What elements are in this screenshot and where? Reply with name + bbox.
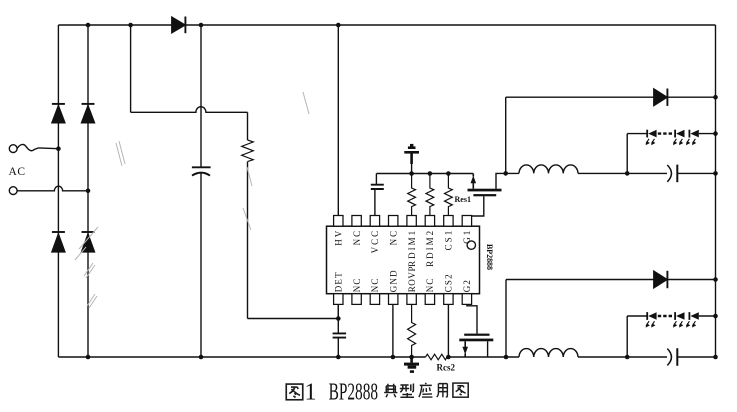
wire top VIN+ bus: [58, 24, 715, 26]
wire CH2 freewheel line: [506, 279, 716, 281]
wire CH2 LED riser: [626, 316, 628, 357]
wire DET horizontal: [248, 318, 339, 320]
LED string CH2: [646, 312, 699, 328]
wire CH2 drain riser: [505, 280, 507, 358]
svg-text:CS1: CS1: [444, 229, 454, 251]
wire CH2 LED row right: [699, 315, 716, 317]
faint scan marks: [75, 92, 309, 308]
wire AC live to bridge: [39, 147, 59, 150]
transistor Q1 gate bar: [473, 194, 496, 196]
wire C4 to rail: [677, 172, 715, 174]
resistor Res1 (CS1): [445, 174, 453, 216]
LED string CH1: [646, 130, 699, 146]
capacitor C5 (CH2 output): [667, 349, 671, 366]
svg-text:DET: DET: [334, 271, 344, 292]
transistor Q1 (NMOS channel bar): [468, 189, 502, 192]
caption: 图 1 BP2888 典型应用图: [286, 383, 468, 400]
wire AC neutral to bridge (hop over left leg): [17, 186, 88, 191]
wire GND pin to rail: [392, 304, 394, 357]
dashed link: [658, 132, 674, 134]
diode D4 bridge bottom-right: [82, 231, 95, 233]
resistor R1: [242, 140, 254, 162]
glyph 用: [437, 384, 448, 398]
transistor Q2 drain lead: [487, 341, 489, 357]
wire CH1 drain riser: [505, 97, 507, 173]
svg-text:Rcs2: Rcs2: [437, 363, 456, 373]
resistor RDIM2: [426, 174, 434, 216]
wire DET cap to rail: [337, 339, 339, 358]
svg-text:RDIM1: RDIM1: [407, 229, 417, 267]
wire CH2 LED row left: [627, 315, 647, 317]
svg-text:VCC: VCC: [370, 229, 380, 254]
svg-text:NC: NC: [352, 229, 362, 246]
capacitor C4 (CH1 output): [667, 165, 671, 182]
svg-text:1: 1: [305, 379, 317, 405]
resistor R1 upper lead: [247, 112, 249, 140]
inductor L1: [506, 165, 667, 173]
resistor RDIM1: [408, 174, 416, 216]
LED LD3: [688, 130, 690, 138]
diode D6 (CH1 freewheel): [654, 89, 667, 106]
capacitor C1 (bulk electrolytic): [192, 166, 211, 168]
svg-text:BP2888: BP2888: [485, 244, 495, 270]
IC pin labels top row: [334, 229, 473, 267]
transistor Q1 drain lead: [496, 173, 506, 188]
IC U1 top pins: [334, 216, 472, 227]
diode D3 bridge bottom-left: [52, 231, 65, 233]
svg-text:RDIM2: RDIM2: [425, 229, 435, 267]
wire bridge right leg: [87, 25, 89, 357]
wire CS1 rail: [376, 173, 473, 175]
wire bulk cap leg lower: [200, 173, 202, 357]
svg-text:NC: NC: [370, 277, 380, 292]
wire bottom rail (left ground section): [58, 356, 519, 358]
wire CH1 LED row right: [699, 133, 716, 135]
terminal AC live: [9, 145, 17, 153]
wire horizontal y112 (hop over cap leg): [131, 107, 248, 113]
wire VCC leads: [375, 174, 377, 216]
inductor L2: [519, 349, 578, 357]
wire G2 lead: [467, 304, 477, 333]
resistor ROVP: [408, 304, 416, 357]
diode D2 bridge top-right: [82, 103, 95, 105]
svg-text:G2: G2: [462, 279, 472, 292]
wire bulk cap leg upper: [200, 25, 202, 167]
svg-text:CS2: CS2: [444, 273, 454, 292]
glyph 型: [400, 383, 414, 397]
wire right VIN+ rail: [715, 25, 717, 357]
svg-text:NC: NC: [352, 277, 362, 292]
svg-text:AC: AC: [9, 166, 26, 178]
LED LD4: [646, 312, 648, 320]
IC U1 pin-1 circle marker: [467, 241, 475, 249]
wire CH1 freewheel line: [506, 96, 716, 98]
transistor Q2 channel bar: [459, 339, 493, 342]
ground symbol (lower): [410, 357, 413, 363]
svg-text:NC: NC: [388, 229, 398, 246]
wire HV pin to top bus: [337, 25, 339, 216]
IC U1 bottom pins: [334, 294, 472, 305]
terminal AC neutral: [9, 187, 17, 195]
diode D5 line input: [172, 17, 185, 33]
capacitor C3 (VCC): [371, 185, 384, 189]
svg-text:Res1: Res1: [455, 195, 471, 204]
svg-text:BP2888: BP2888: [329, 379, 379, 405]
transistor Q2 source arrow: [464, 341, 466, 357]
glyph 典: [384, 384, 397, 397]
IC U1 BP2888 body: [327, 226, 480, 294]
transistor Q1 source arrow: [472, 174, 474, 189]
wire R1 to DET line: [247, 162, 249, 319]
svg-text:HV: HV: [334, 229, 344, 246]
glyph 图 (last): [453, 383, 468, 397]
LED LD2: [674, 130, 676, 138]
wire CH1 LED riser: [626, 134, 628, 174]
wire DET pin stub: [337, 304, 339, 318]
transistor Q1 gate lead to G1: [471, 196, 484, 216]
svg-text:ROVP: ROVP: [407, 266, 417, 292]
svg-text:NC: NC: [425, 277, 435, 292]
LED LD6: [688, 312, 690, 320]
svg-text:G1: G1: [462, 229, 472, 244]
diode D1 bridge top-left: [52, 103, 65, 105]
diode D7 (CH2 freewheel): [654, 271, 667, 288]
transistor Q2 gate bar: [464, 334, 489, 336]
glyph 应: [419, 383, 432, 397]
LED LD5: [674, 312, 676, 320]
IC pin labels bottom row: [334, 266, 473, 292]
glyph 图 (first): [286, 384, 303, 400]
dashed link: [658, 315, 674, 317]
svg-text:GND: GND: [388, 269, 398, 292]
wire DET drop: [337, 304, 339, 332]
resistor Rcs2: [426, 354, 448, 360]
ground symbol (upper, inverted): [411, 164, 413, 174]
wire bottom rail (right output section): [578, 356, 716, 358]
fuse F1: [17, 144, 38, 150]
wire CS2 pin to rail: [447, 304, 449, 357]
wire CH1 LED row left: [627, 133, 647, 135]
wire mid vertical from top bus: [130, 25, 132, 112]
LED LD1: [646, 130, 648, 138]
wire bridge left leg: [57, 25, 59, 357]
capacitor C2 (DET): [333, 333, 347, 337]
